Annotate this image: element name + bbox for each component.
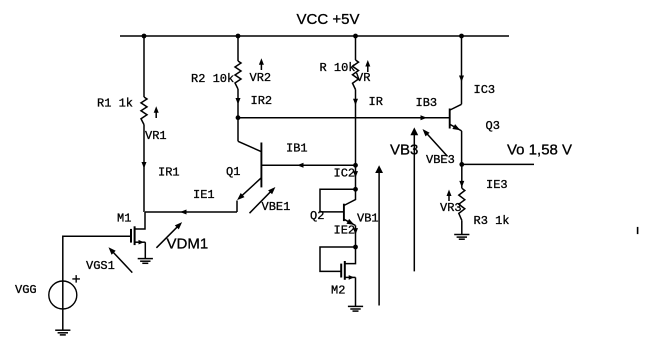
wire base net to Q3, current IB3 xyxy=(238,117,449,119)
svg-text:IB1: IB1 xyxy=(286,142,308,156)
wire Q1 emitter down xyxy=(236,201,238,213)
ground VGG xyxy=(55,329,70,331)
svg-text:IC3: IC3 xyxy=(474,83,496,97)
transistor Q1 emitter lead with arrow xyxy=(239,178,262,199)
node VCC at R2 xyxy=(236,34,241,39)
wire output node to R3, current IE3 xyxy=(461,164,463,188)
transistor Q2 base bar xyxy=(343,204,345,221)
node M2 drain xyxy=(353,245,358,250)
wire VCC to Q3 collector, current IC3 xyxy=(461,36,463,104)
svg-text:VDM1: VDM1 xyxy=(167,235,209,252)
node R2 bottom xyxy=(236,115,241,120)
wire R1 to M1 drain, current IR1 xyxy=(143,125,145,212)
transistor Q3 collector lead xyxy=(450,104,462,110)
arrow VR xyxy=(367,63,369,72)
ground M1 xyxy=(138,258,153,260)
wire M1 gate xyxy=(63,236,131,330)
arrow VB3 long xyxy=(413,131,415,272)
svg-text:R1 1k: R1 1k xyxy=(97,97,133,111)
svg-text:Q3: Q3 xyxy=(486,119,500,133)
svg-text:Q1: Q1 xyxy=(226,165,240,179)
wire VCC to R2 xyxy=(237,36,239,61)
wire R down across base net, current IR xyxy=(355,90,357,166)
wire Q1 base to node, current IB1 xyxy=(261,164,355,166)
svg-text:VB3: VB3 xyxy=(390,141,418,158)
resistor R xyxy=(353,60,359,90)
voltage source VGG xyxy=(49,281,77,309)
resistor R3 xyxy=(459,188,465,220)
node IB1 junction xyxy=(353,163,358,168)
arrow VR1 xyxy=(155,109,157,118)
arrow VR2 xyxy=(260,61,262,70)
svg-text:VGG: VGG xyxy=(15,283,37,297)
svg-text:VGS1: VGS1 xyxy=(86,259,115,273)
arrow VGS1 xyxy=(111,250,133,273)
wire R3 to ground xyxy=(461,220,463,234)
mosfet M1 source lead with arrow xyxy=(135,241,145,243)
mosfet M2 channel bar xyxy=(344,261,346,280)
wire VCC to R xyxy=(355,36,357,60)
svg-text:IB3: IB3 xyxy=(416,96,438,110)
node VCC at R1 xyxy=(142,34,147,39)
svg-text:Vo 1,58 V: Vo 1,58 V xyxy=(507,141,572,158)
wire node to Q1 collector xyxy=(237,118,239,142)
wire M2 gate-drain loop xyxy=(320,247,356,271)
mosfet M2 gate bar xyxy=(340,264,342,278)
svg-text:VR2: VR2 xyxy=(250,71,272,85)
wire R2 to node, current IR2 xyxy=(237,89,239,118)
transistor Q2 emitter lead with arrow xyxy=(344,219,356,225)
arrow VBE1 xyxy=(250,189,274,213)
wire IB1 node down, current IC2 xyxy=(355,165,357,189)
stray cursor mark xyxy=(637,227,639,234)
svg-text:VR1: VR1 xyxy=(145,129,167,143)
arrow VDM1 xyxy=(156,224,180,248)
node Q2 collector xyxy=(353,187,358,192)
wire output Vo xyxy=(462,163,534,165)
svg-text:M2: M2 xyxy=(331,284,345,298)
mosfet M1 drain lead xyxy=(135,212,145,229)
svg-text:Q2: Q2 xyxy=(310,209,324,223)
svg-text:R3 1k: R3 1k xyxy=(474,214,510,228)
mosfet M2 drain lead xyxy=(345,247,355,264)
arrow VB1 long xyxy=(378,169,380,306)
svg-text:IR2: IR2 xyxy=(251,94,273,108)
svg-text:IR: IR xyxy=(369,95,383,109)
node VCC at Q3 collector branch xyxy=(459,34,464,39)
svg-text:R 10k: R 10k xyxy=(320,61,356,75)
node VCC at R xyxy=(353,34,358,39)
svg-text:VB1: VB1 xyxy=(357,212,379,226)
svg-text:VR: VR xyxy=(356,71,370,85)
transistor Q3 emitter lead with arrow xyxy=(450,124,462,130)
wire emitter to M1 drain, current IE1 xyxy=(145,211,237,213)
wire Q3 emitter down xyxy=(461,131,463,165)
resistor R1 xyxy=(141,97,147,125)
node output xyxy=(459,162,464,167)
svg-text:IE3: IE3 xyxy=(486,178,508,192)
wire Q2 base-collector loop xyxy=(320,189,356,212)
svg-text:IE2: IE2 xyxy=(334,224,356,238)
mosfet M1 gate bar xyxy=(130,229,132,243)
wire Q2 emitter down, current IE2 xyxy=(355,226,357,248)
mosfet M2 source lead with arrow xyxy=(345,276,355,278)
wire VCC to R1 xyxy=(143,36,145,97)
transistor Q1 base bar xyxy=(260,143,262,188)
resistor R2 xyxy=(235,61,241,89)
svg-text:R2 10k: R2 10k xyxy=(191,72,234,86)
wire VCC top rail xyxy=(120,35,509,37)
transistor Q3 base bar xyxy=(449,109,451,129)
svg-text:IR1: IR1 xyxy=(158,166,180,180)
svg-text:VBE3: VBE3 xyxy=(426,153,455,167)
arrow VR3 xyxy=(448,193,450,202)
svg-text:IC2: IC2 xyxy=(334,167,356,181)
svg-text:VCC +5V: VCC +5V xyxy=(297,11,360,28)
arrow VBE3 xyxy=(425,131,448,156)
svg-text:VR3: VR3 xyxy=(440,201,462,215)
svg-text:VBE1: VBE1 xyxy=(262,200,291,214)
mosfet M1 channel bar xyxy=(134,226,136,245)
svg-text:+: + xyxy=(72,271,81,288)
svg-text:IE1: IE1 xyxy=(193,188,215,202)
transistor Q2 collector lead xyxy=(344,189,356,205)
ground R3 xyxy=(454,234,469,236)
transistor Q1 collector lead xyxy=(238,141,261,151)
ground M2 xyxy=(348,305,363,307)
svg-text:M1: M1 xyxy=(117,212,131,226)
